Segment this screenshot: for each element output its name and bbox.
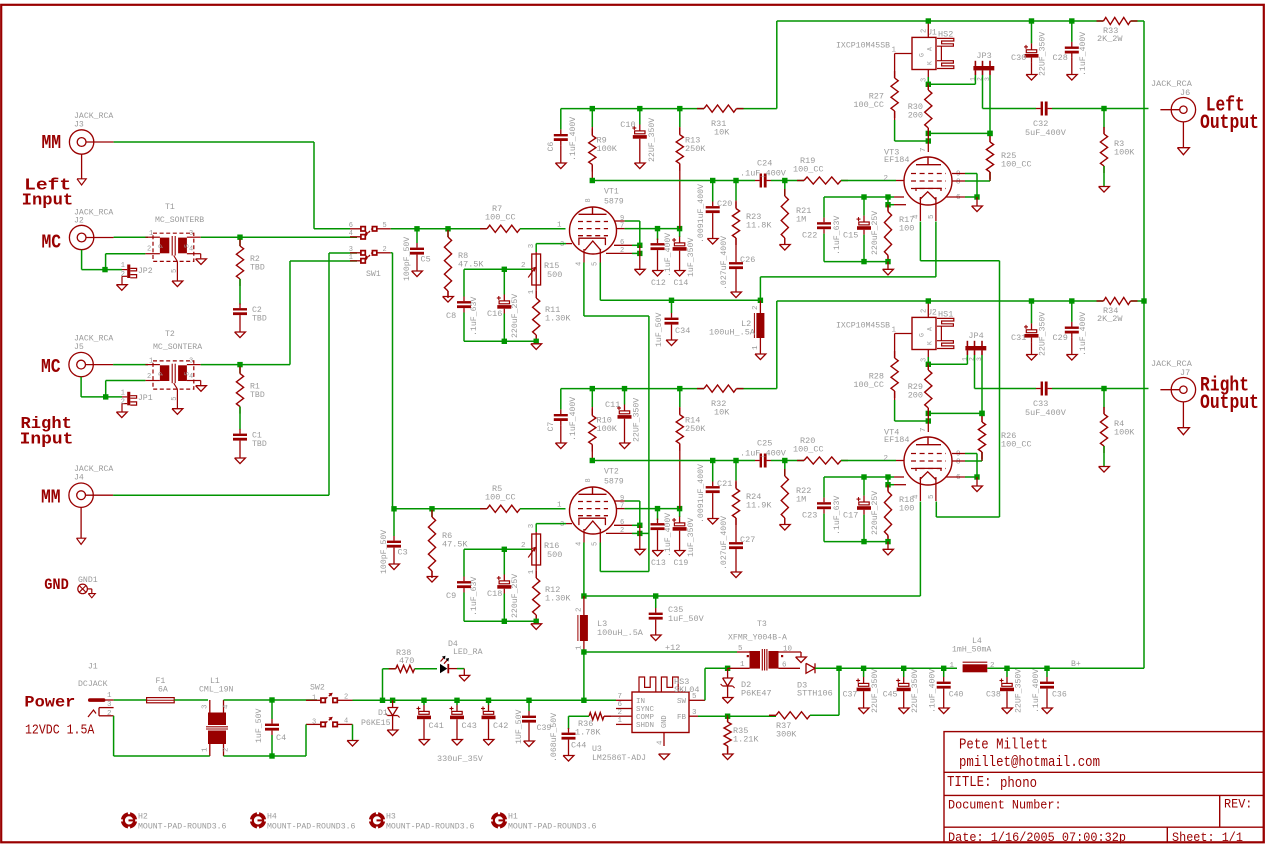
label C22 <box>802 216 842 255</box>
label J1 DCJACK <box>78 663 108 690</box>
junction C34 <box>669 298 674 303</box>
label D1 P6KE15 <box>361 709 391 728</box>
label R29 <box>908 382 923 401</box>
svg-text:IXCP10M45SB: IXCP10M45SB <box>836 322 890 331</box>
svg-text:100K: 100K <box>1114 148 1135 158</box>
resistor R18 100 <box>884 485 891 543</box>
capacitor C6 .1uF_400V <box>554 109 568 169</box>
svg-text:7: 7 <box>620 223 624 231</box>
svg-text:H4: H4 <box>267 813 277 822</box>
svg-text:3: 3 <box>528 523 536 528</box>
ground T2 pin4 <box>196 381 207 392</box>
svg-text:C40: C40 <box>949 691 964 700</box>
label C16 <box>487 294 520 338</box>
label C35 <box>668 605 705 624</box>
svg-text:P6KE47: P6KE47 <box>741 689 772 699</box>
capacitor C21 .0091uF <box>706 461 720 525</box>
wire cathode rail VT3 <box>824 194 891 207</box>
svg-text:+12: +12 <box>665 643 680 653</box>
label F1 6A <box>156 677 168 695</box>
svg-text:C21: C21 <box>717 479 732 489</box>
svg-text:1: 1 <box>528 289 536 294</box>
pin labels 2 <box>886 427 936 499</box>
wire pin8 <box>952 172 990 181</box>
svg-text:22UF_350V: 22UF_350V <box>871 669 880 713</box>
capacitor C37 22UF_350V <box>856 668 871 713</box>
svg-text:1: 1 <box>149 230 153 238</box>
junction C40 <box>941 666 946 671</box>
svg-text:1: 1 <box>121 389 125 397</box>
svg-text:SKL04: SKL04 <box>674 685 700 695</box>
label C27 <box>720 516 755 570</box>
label C8 <box>446 297 479 336</box>
wire pin2 <box>606 252 640 254</box>
wire VT1 pin4 to VT2 pin5 <box>584 263 649 572</box>
label C29 <box>1053 312 1089 356</box>
wire heater line 2 <box>584 502 921 597</box>
label C7 <box>547 397 578 441</box>
label C3 <box>398 548 408 558</box>
wire L3 to +12 rail <box>583 652 585 700</box>
svg-text:220uF_25V: 220uF_25V <box>871 211 880 255</box>
label R31 <box>711 119 730 138</box>
mount pad H1 <box>491 812 507 828</box>
wire SW1 pin2 to VT2 grid <box>391 253 393 509</box>
capacitor C44 .068uF <box>562 728 576 761</box>
label R16 <box>544 541 562 560</box>
svg-text:7: 7 <box>617 693 622 701</box>
junction <box>502 547 507 552</box>
resistor R36 1.78K <box>569 713 617 729</box>
capacitor C33 5uF_400V <box>1036 382 1149 396</box>
ground T1 pin4 <box>196 254 207 265</box>
label HS1 <box>938 310 953 320</box>
label C11 <box>605 398 642 442</box>
label R33 <box>1097 26 1123 44</box>
svg-text:C45: C45 <box>883 691 898 700</box>
junction pin2 <box>637 531 642 536</box>
wire pin2 <box>606 532 640 534</box>
svg-text:.0091uF_400V: .0091uF_400V <box>697 184 706 243</box>
ground cathode VT3 <box>883 262 894 275</box>
svg-text:11.9K: 11.9K <box>746 501 772 511</box>
svg-text:Date: 1/16/2005 07:00:32p: Date: 1/16/2005 07:00:32p <box>948 830 1126 845</box>
junction U pin2 <box>926 18 931 23</box>
svg-text:4: 4 <box>344 718 348 726</box>
label C39 <box>515 710 551 744</box>
svg-text:2K_2W: 2K_2W <box>1097 314 1123 324</box>
connector J6 output jack <box>1160 98 1195 155</box>
svg-text:LED_RA: LED_RA <box>453 648 483 657</box>
capacitor C27 .027uF <box>729 538 743 578</box>
svg-text:3: 3 <box>107 701 112 709</box>
svg-text:1: 1 <box>312 694 316 702</box>
ground C2 <box>235 320 246 338</box>
junction U pin2 <box>926 298 931 303</box>
svg-text:REV:: REV: <box>1224 796 1252 811</box>
svg-text:C5: C5 <box>421 255 431 265</box>
resistor R12 1.30K <box>533 567 540 622</box>
wire pin6 <box>614 524 640 526</box>
capacitor C35 1uF_50V <box>649 593 663 640</box>
value C5 <box>403 237 412 281</box>
svg-text:C18: C18 <box>487 589 502 599</box>
capacitor C20 .0091uF <box>706 181 720 245</box>
ground cathode <box>531 344 542 350</box>
svg-text:C38: C38 <box>986 691 1001 700</box>
wire screen line <box>617 228 680 230</box>
label MC right input <box>41 356 61 378</box>
resistor R11 1.30K <box>533 287 540 342</box>
svg-text:C14: C14 <box>674 279 689 288</box>
svg-text:100K: 100K <box>597 424 618 434</box>
junction JP1 node <box>103 394 108 399</box>
svg-text:C30: C30 <box>1011 53 1026 63</box>
svg-text:100pF_50V: 100pF_50V <box>380 530 389 574</box>
svg-text:3: 3 <box>312 718 316 726</box>
svg-text:.1uF_63V: .1uF_63V <box>470 297 479 336</box>
svg-text:3: 3 <box>692 709 697 717</box>
svg-text:.1uF_400V: .1uF_400V <box>740 448 787 458</box>
svg-text:6A: 6A <box>158 686 168 695</box>
svg-text:.068uF_50V: .068uF_50V <box>550 713 559 762</box>
junction C38 <box>1004 666 1009 671</box>
wire T2 pin3 to riser <box>201 364 290 366</box>
svg-text:100uH_.5A: 100uH_.5A <box>597 628 644 638</box>
ground T1 pin5 <box>172 281 183 287</box>
svg-text:S: S <box>184 244 191 248</box>
capacitor C18 220uF_25V <box>497 549 512 621</box>
svg-text:47.5K: 47.5K <box>458 260 484 270</box>
label GND <box>44 576 69 594</box>
junction +12 rail <box>581 698 586 703</box>
junction +12 rail <box>421 698 426 703</box>
capacitor C31 22UF_350V <box>1024 298 1039 360</box>
svg-text:5: 5 <box>738 645 743 653</box>
svg-text:6: 6 <box>956 474 961 482</box>
label R20 <box>793 436 824 455</box>
label C30 <box>1011 32 1048 76</box>
resistor R26 100_CC <box>978 413 985 460</box>
svg-text:A: A <box>927 47 934 51</box>
svg-text:8: 8 <box>585 478 593 482</box>
capacitor C43 330uF <box>450 700 465 745</box>
label R11 <box>545 305 571 324</box>
svg-text:1: 1 <box>528 569 536 574</box>
svg-text:XFMR_Y004B-A: XFMR_Y004B-A <box>728 634 787 643</box>
svg-text:Sheet: 1/1: Sheet: 1/1 <box>1172 830 1243 845</box>
wire cathode bottom VT3 <box>824 539 891 544</box>
wire cathode rail <box>464 268 532 270</box>
svg-text:5uF_400V: 5uF_400V <box>1025 128 1067 138</box>
svg-text:JP4: JP4 <box>968 331 983 341</box>
junction R2 top <box>237 235 242 240</box>
svg-text:C22: C22 <box>802 231 817 241</box>
wire L1 to SW2 <box>224 697 318 702</box>
svg-text:.027uF_400V: .027uF_400V <box>720 236 729 290</box>
svg-text:SW: SW <box>677 698 687 706</box>
pin labels right <box>620 495 624 535</box>
svg-text:5: 5 <box>928 214 936 219</box>
svg-text:200: 200 <box>908 111 923 121</box>
svg-text:C26: C26 <box>740 255 755 265</box>
label Left Input <box>22 176 74 210</box>
svg-text:1: 1 <box>557 502 562 510</box>
mount pad H2 <box>121 812 137 828</box>
pin labels <box>560 478 600 546</box>
label R15 <box>544 261 562 280</box>
wire JP4 pin1 <box>928 355 967 364</box>
pin labels <box>560 198 600 266</box>
svg-text:2: 2 <box>521 542 526 550</box>
label R36 1.78K <box>575 719 601 738</box>
current regulator U1 <box>912 37 936 69</box>
svg-text:K: K <box>927 341 934 345</box>
resistor R30 200 <box>925 82 932 135</box>
wire FB node <box>698 714 730 719</box>
svg-text:8: 8 <box>956 178 961 186</box>
svg-text:22UF_350V: 22UF_350V <box>648 118 657 162</box>
svg-text:4: 4 <box>576 262 584 266</box>
svg-text:C16: C16 <box>487 309 502 319</box>
wire return to L1 <box>114 716 210 756</box>
svg-text:1uF_350V: 1uF_350V <box>687 518 696 557</box>
svg-text:IN: IN <box>636 698 645 706</box>
ground cathode VT3 <box>883 542 894 555</box>
ground D4 <box>459 675 470 681</box>
svg-text:2: 2 <box>883 175 888 183</box>
junction L2 <box>758 298 763 303</box>
svg-text:100_CC: 100_CC <box>793 445 824 455</box>
svg-text:phono: phono <box>1000 776 1037 792</box>
svg-text:6: 6 <box>349 222 353 230</box>
junction +12 rail <box>390 698 395 703</box>
svg-text:1: 1 <box>891 47 896 55</box>
svg-text:MOUNT-PAD-ROUND3.6: MOUNT-PAD-ROUND3.6 <box>386 822 475 831</box>
resistor R32 10K <box>697 385 744 392</box>
junction rail <box>590 106 683 111</box>
wire to JP2 pin1 <box>105 269 122 271</box>
wire +12 to T3 <box>584 643 737 653</box>
svg-text:J5: J5 <box>74 343 84 352</box>
zener D2 P6KE47 <box>721 668 735 703</box>
svg-text:C34: C34 <box>675 326 690 336</box>
capacitor C19 1uF_350V <box>672 509 687 556</box>
label R18 <box>899 495 914 514</box>
svg-text:1M: 1M <box>796 215 806 225</box>
svg-text:IXCP10M45SB: IXCP10M45SB <box>836 42 890 51</box>
label C19 <box>674 518 697 568</box>
svg-text:220uF_25V: 220uF_25V <box>511 574 520 618</box>
svg-text:250K: 250K <box>685 144 706 154</box>
svg-text:8: 8 <box>956 458 961 466</box>
capacitor C12 .1uF_400V <box>651 229 665 277</box>
svg-text:100_CC: 100_CC <box>485 213 516 223</box>
svg-text:J1: J1 <box>88 663 98 672</box>
junction JP2 node <box>102 267 107 272</box>
ground SW2 pin4 <box>347 724 358 746</box>
resistor R34 2K_2W <box>1097 297 1145 304</box>
wire J1 to F1 <box>114 699 147 701</box>
ground U3 <box>659 754 670 760</box>
svg-text:3: 3 <box>921 358 929 362</box>
svg-text:C8: C8 <box>446 311 456 321</box>
svg-text:.1uF_400V: .1uF_400V <box>1032 669 1041 713</box>
ground JP1 pin2 <box>116 404 127 418</box>
wire VT3 pin4 to VT4 pin5 <box>920 222 999 518</box>
capacitor C25 .1uF_400V <box>755 454 788 468</box>
wire pin6 <box>946 474 980 479</box>
label R30 <box>908 102 923 121</box>
svg-text:3: 3 <box>560 521 564 529</box>
label R3 <box>1114 139 1135 158</box>
label L1 CML_19N <box>199 677 233 695</box>
label R19 <box>793 156 824 175</box>
label U2 IXCP10M45SB <box>836 309 937 331</box>
junction rail <box>590 386 683 391</box>
label C24 <box>740 159 787 179</box>
pot pin labels <box>521 243 536 294</box>
junction pin6 <box>637 523 642 528</box>
label C2 TBD <box>252 306 267 323</box>
wire J2 to T1 pin1 <box>114 236 148 238</box>
wire VT2 pin4 down <box>581 543 586 599</box>
svg-text:1: 1 <box>949 662 954 670</box>
resistor R27 100_CC <box>891 60 898 120</box>
svg-text:C13: C13 <box>651 559 666 568</box>
connector J7 output jack <box>1160 378 1195 435</box>
label C31 <box>1011 312 1048 356</box>
svg-text:10: 10 <box>783 646 793 654</box>
wire plate line <box>592 458 755 463</box>
capacitor C45 22UF_350V <box>896 668 911 713</box>
label D2 P6KE47 <box>741 680 772 699</box>
svg-text:MM: MM <box>41 487 61 509</box>
svg-text:1: 1 <box>149 357 153 365</box>
svg-text:C24: C24 <box>757 159 772 169</box>
capacitor C5 100pF <box>410 229 424 277</box>
connector J4 (MM right jack) <box>69 483 113 544</box>
svg-text:22UF_350V: 22UF_350V <box>1039 312 1048 356</box>
svg-text:G: G <box>919 53 926 57</box>
svg-text:3: 3 <box>921 78 929 82</box>
svg-text:100_CC: 100_CC <box>793 165 824 175</box>
capacitor C13 .1uF_400V <box>651 509 665 556</box>
ground tube shield <box>634 245 645 275</box>
resistor R20 100_CC <box>785 457 904 464</box>
wire to pin7 <box>927 133 929 152</box>
svg-text:300K: 300K <box>776 730 797 740</box>
label R25 <box>1001 151 1032 170</box>
svg-text:1mH_50mA: 1mH_50mA <box>952 646 991 655</box>
svg-text:1: 1 <box>121 262 125 270</box>
label MC left input <box>42 232 62 254</box>
svg-text:100pF_50V: 100pF_50V <box>403 237 412 281</box>
wire JP3 pin1 <box>928 75 975 84</box>
wire pin1 <box>888 477 906 486</box>
label MM left input <box>42 132 62 154</box>
svg-text:C27: C27 <box>740 535 755 545</box>
svg-text:VT1: VT1 <box>604 188 619 197</box>
choke L1 CML_19N <box>208 713 226 726</box>
label R17 <box>899 215 914 234</box>
svg-text:SW2: SW2 <box>310 683 325 692</box>
label HS2 <box>938 30 953 40</box>
svg-text:C44: C44 <box>571 741 586 751</box>
svg-text:C19: C19 <box>674 559 689 568</box>
label D4 LED_RA <box>448 640 483 657</box>
label C43 <box>462 721 477 731</box>
label R28 <box>853 372 884 391</box>
label Power 12VDC <box>24 693 95 738</box>
svg-text:.1uF_400V: .1uF_400V <box>740 168 787 178</box>
svg-text:1: 1 <box>891 327 896 335</box>
junction +12 rail <box>486 698 491 703</box>
wire JP4 pin2 <box>975 355 1037 389</box>
resistor R17 100 <box>884 205 891 263</box>
resistor R25 100_CC <box>986 133 993 180</box>
wire T2 to SW1 pin1 <box>290 261 357 365</box>
label R26 <box>1001 431 1032 450</box>
label L3 <box>576 607 644 650</box>
label R4 <box>1114 419 1135 438</box>
wire B+ riser <box>1141 21 1146 668</box>
svg-text:.1uF_400V: .1uF_400V <box>1079 312 1088 356</box>
svg-text:7: 7 <box>920 147 928 152</box>
capacitor C1 <box>233 429 247 445</box>
label JACK_RCA J5 <box>74 335 113 352</box>
pin 1 <box>557 502 562 510</box>
resistor R10 100K <box>589 389 596 461</box>
capacitor C22 .1uF_63V <box>817 197 831 262</box>
heatsink HS2 <box>937 38 954 68</box>
svg-text:SYNC: SYNC <box>636 706 655 714</box>
current regulator U2 <box>912 317 936 349</box>
junction pin2 <box>637 251 642 256</box>
wire return to SW2 pole2 <box>305 724 307 756</box>
capacitor C24 .1uF_400V <box>755 174 788 188</box>
wire pin3 to pot <box>536 523 572 525</box>
connector J5 (MC right jack) <box>69 352 148 376</box>
capacitor C38 22UF_350V <box>1000 668 1015 713</box>
wire B+ rail <box>561 301 777 389</box>
capacitor C36 .1uF_400V <box>1040 668 1054 713</box>
svg-text:1uF_350V: 1uF_350V <box>687 238 696 277</box>
connector J3 (MM left jack) <box>69 130 113 185</box>
pin labels <box>883 451 961 483</box>
resistor R22 1M <box>779 461 790 531</box>
capacitor C9 .1uF_63V <box>457 549 471 621</box>
junction +12 rail <box>526 698 531 703</box>
resistor R28 100_CC <box>891 340 898 400</box>
label 330uF_35V <box>437 754 484 764</box>
resistor R33 2K_2W <box>1097 17 1145 24</box>
svg-text:.1uF_400V: .1uF_400V <box>929 669 938 713</box>
svg-text:C4: C4 <box>276 733 286 743</box>
svg-text:P6KE15: P6KE15 <box>361 719 391 728</box>
label R2 TBD <box>250 255 265 272</box>
svg-text:1.30K: 1.30K <box>545 594 571 604</box>
label R38 470 <box>396 648 414 666</box>
label L2 <box>709 305 760 350</box>
capacitor C39 1uF_50V <box>522 700 536 746</box>
wire +12 rail <box>353 699 617 701</box>
svg-text:6: 6 <box>782 662 787 670</box>
capacitor C26 .027uF <box>729 258 743 298</box>
svg-text:EF184: EF184 <box>884 155 910 165</box>
svg-text:100_CC: 100_CC <box>853 100 884 110</box>
capacitor C28 .1uF_400V <box>1065 18 1079 80</box>
